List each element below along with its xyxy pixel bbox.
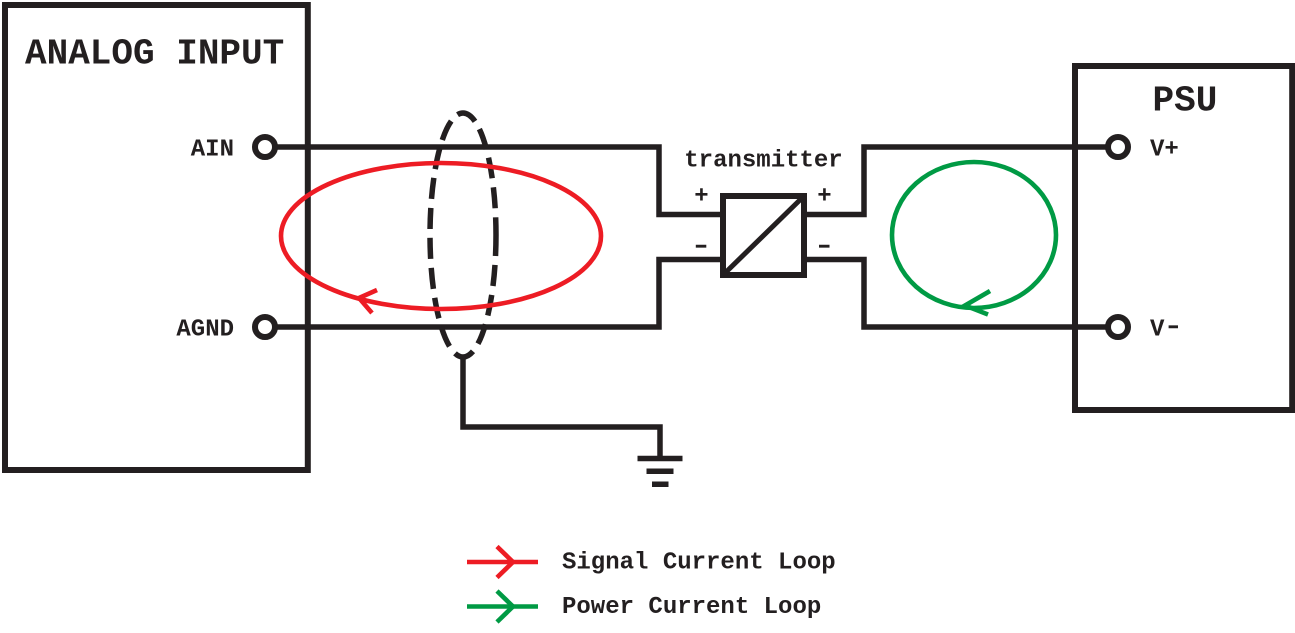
svg-text:V: V bbox=[1150, 317, 1165, 344]
svg-text:Power Current Loop: Power Current Loop bbox=[562, 594, 821, 621]
block ANALOG INPUT bbox=[5, 5, 308, 470]
pin label - (right) bbox=[819, 245, 830, 248]
power current loop (green) bbox=[892, 162, 1056, 308]
terminal V+ bbox=[1108, 137, 1128, 157]
svg-text:transmitter: transmitter bbox=[684, 148, 842, 175]
svg-text:AGND: AGND bbox=[176, 317, 234, 344]
legend power arrow bbox=[467, 591, 538, 622]
arrow power loop bbox=[965, 291, 990, 315]
svg-text:+: + bbox=[694, 184, 708, 211]
wire shield to ground bbox=[463, 357, 660, 458]
wire AGND to transmitter - bbox=[265, 260, 723, 328]
block PSU bbox=[1075, 66, 1292, 410]
cable shield bbox=[430, 113, 496, 357]
transmitter U1 bbox=[723, 196, 804, 275]
wire transmitter - to V- bbox=[804, 260, 1118, 328]
pin label - (left) bbox=[696, 245, 707, 248]
svg-text:ANALOG INPUT: ANALOG INPUT bbox=[25, 34, 284, 75]
wire transmitter + to V+ bbox=[804, 147, 1118, 215]
terminal AGND bbox=[255, 317, 275, 337]
svg-text:PSU: PSU bbox=[1153, 81, 1218, 122]
svg-text:+: + bbox=[817, 184, 831, 211]
svg-text:Signal Current Loop: Signal Current Loop bbox=[562, 550, 836, 577]
ground bbox=[638, 459, 683, 485]
svg-text:V+: V+ bbox=[1150, 137, 1179, 164]
svg-text:AIN: AIN bbox=[191, 137, 234, 164]
terminal AIN bbox=[255, 137, 275, 157]
signal current loop (red) bbox=[281, 163, 601, 309]
terminal V- bbox=[1108, 317, 1128, 337]
legend signal arrow bbox=[467, 547, 538, 578]
arrow signal loop bbox=[359, 290, 377, 313]
wire AIN to transmitter + bbox=[265, 147, 723, 215]
